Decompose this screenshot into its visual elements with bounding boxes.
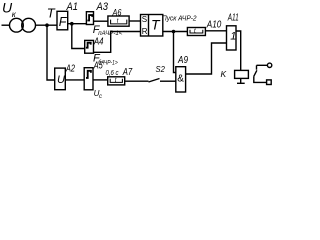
- hysteresis symbol in A5: [86, 71, 91, 78]
- OR gate A11: [227, 26, 237, 50]
- wire A4 to trigger R input: [94, 32, 141, 53]
- svg-text:A7: A7: [122, 66, 133, 78]
- svg-text:A1: A1: [66, 1, 78, 13]
- svg-text:A9: A9: [177, 54, 188, 66]
- delay element A7: [108, 77, 125, 85]
- wire A2 to A5: [65, 79, 84, 81]
- svg-text:&: &: [177, 74, 184, 85]
- wire A10 to OR A11: [205, 30, 226, 32]
- svg-text:T: T: [47, 5, 56, 20]
- svg-text:U: U: [57, 74, 65, 86]
- transformer T: [10, 18, 24, 32]
- svg-text:Пуск АЧР-2: Пуск АЧР-2: [162, 13, 197, 22]
- svg-text:A2: A2: [65, 62, 75, 74]
- ground: [237, 82, 245, 84]
- delay element A6: [108, 16, 129, 26]
- delay symbol inside A10: [190, 30, 203, 33]
- svg-text:R: R: [142, 27, 148, 36]
- svg-text:A3: A3: [96, 1, 109, 13]
- svg-text:A5: A5: [93, 60, 103, 72]
- wire transformer to A1: [35, 24, 57, 26]
- comparator A3 box: [86, 12, 93, 25]
- delay symbol inside A7: [110, 79, 122, 83]
- switch S2 blade: [149, 79, 160, 83]
- wire A11 output to relay K: [236, 31, 241, 70]
- svg-text:A6: A6: [112, 8, 122, 19]
- svg-text:1: 1: [230, 31, 236, 43]
- wire A1 to A3: [68, 23, 86, 25]
- wire A7 to switch S2: [125, 80, 149, 82]
- AND gate A9: [176, 67, 186, 92]
- contact of relay K upper terminal wire: [257, 64, 268, 66]
- wire A6 to trigger S input: [129, 20, 140, 22]
- block A1 measuring element F: [57, 11, 68, 30]
- wire S2 to A9: [160, 80, 176, 82]
- hysteresis symbol in A4: [86, 43, 91, 48]
- hysteresis symbol in A3: [87, 15, 92, 20]
- wire coil to ground: [240, 78, 242, 83]
- RS trigger T: [141, 15, 163, 37]
- comparator A5 box: [84, 68, 93, 90]
- wire A3 to A6: [94, 20, 108, 22]
- trigger partition line: [148, 15, 150, 37]
- wire down to A4: [72, 24, 85, 49]
- block A2 measuring element U: [55, 68, 66, 90]
- svg-text:A10: A10: [206, 18, 221, 30]
- wire trigger output: [163, 31, 188, 33]
- wire down to AND A9: [174, 32, 176, 73]
- comparator A4 box: [85, 40, 94, 53]
- node junction at transformer output: [45, 23, 49, 27]
- wire A9 output up to A11: [186, 43, 227, 74]
- node junction after A1: [70, 22, 74, 26]
- svg-text:S: S: [142, 15, 147, 24]
- delay symbol inside A6: [111, 20, 127, 24]
- svg-text:с: с: [99, 94, 102, 100]
- wire down to A2: [47, 25, 55, 80]
- contact terminal circle: [267, 63, 271, 67]
- svg-text:S2: S2: [156, 65, 166, 74]
- svg-text:T: T: [151, 16, 161, 32]
- node junction on trigger output: [172, 30, 176, 34]
- contact terminal square: [267, 80, 272, 85]
- contact fixed lead: [256, 65, 258, 69]
- delay element A10: [187, 28, 205, 36]
- contact lower terminal wire: [254, 76, 267, 82]
- svg-text:A11: A11: [227, 12, 239, 24]
- wire A5 to A7: [93, 79, 108, 81]
- relay coil K: [235, 70, 249, 78]
- svg-text:A4: A4: [93, 36, 103, 48]
- wire input stub: [2, 24, 10, 26]
- contact movable blade: [254, 70, 257, 76]
- svg-text:0,6 с: 0,6 с: [106, 70, 119, 77]
- svg-text:K: K: [221, 69, 227, 79]
